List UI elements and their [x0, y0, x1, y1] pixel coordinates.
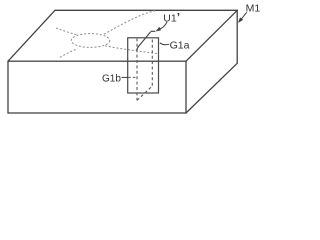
plate G1b top solid diagonal edge	[137, 32, 151, 51]
U1' leader arrow	[158, 22, 167, 30]
box M1 back-right vertical edge	[236, 10, 238, 63]
plate G1a solid rectangle	[128, 38, 159, 93]
svg-text:M1: M1	[246, 2, 261, 14]
plate G1b top back solid tick	[151, 30, 156, 32]
box M1 top-right slant edge	[186, 10, 237, 61]
M1 leader arrow	[240, 12, 247, 20]
U1' arrowhead	[156, 27, 161, 31]
svg-text:G1b: G1b	[102, 73, 121, 84]
svg-text:U1’: U1’	[163, 10, 180, 24]
dashed curve A left segment	[56, 28, 78, 35]
plate G1b hidden left vertical dashed edge	[136, 38, 138, 100]
dashed ellipse on top face	[71, 34, 109, 48]
box M1 back top edge	[55, 9, 237, 11]
G1a tilde leader	[160, 43, 169, 45]
box M1 front face	[8, 61, 186, 113]
plate G1b hidden right vertical dashed edge	[151, 40, 153, 87]
plate G1b hidden bottom dashed diagonal edge	[137, 86, 152, 100]
G1b leader solid part	[122, 76, 129, 78]
dashed curve B right segment	[104, 11, 155, 34]
dashed curve B left segment	[60, 49, 78, 58]
M1 arrowhead	[238, 18, 243, 23]
dashed curve A right segment	[105, 46, 158, 54]
box M1 top-left slant edge	[8, 10, 55, 61]
box M1 bottom-right slant edge	[186, 63, 237, 113]
svg-text:G1a: G1a	[170, 39, 190, 51]
G1b leader dashed part	[128, 76, 136, 78]
